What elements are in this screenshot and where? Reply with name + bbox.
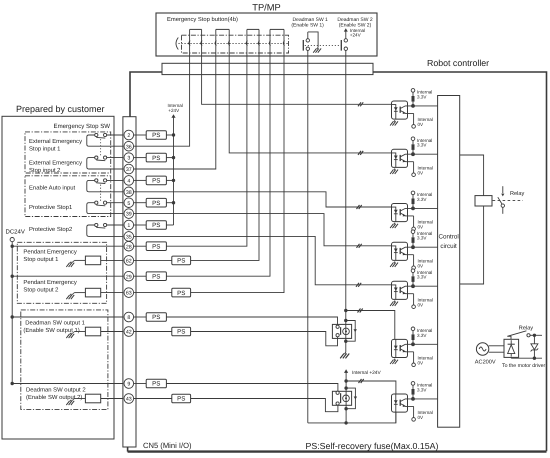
label Robot controller xyxy=(427,58,489,68)
svg-text:circuit: circuit xyxy=(440,243,457,250)
svg-text:Robot controller: Robot controller xyxy=(427,58,489,68)
wire pin 42 to PS xyxy=(134,331,172,333)
ground optocoupler 3 xyxy=(390,223,398,228)
wire K1 to ground xyxy=(345,341,347,352)
svg-text:External Emergency: External Emergency xyxy=(29,160,82,167)
ground optocoupler 6 xyxy=(390,359,398,364)
pin 8 xyxy=(124,312,134,322)
wire DC24V rail to pin 8 xyxy=(12,316,127,318)
wire DC24V rail to pin 9 xyxy=(12,383,127,385)
ground optocoupler 1 xyxy=(390,120,398,125)
svg-text:0V: 0V xyxy=(418,360,425,365)
internal 0V terminal opto 6 xyxy=(412,352,433,367)
wire pin 3 to PS xyxy=(134,157,147,159)
svg-text:PS:Self-recovery fuse(Max.0.15: PS:Self-recovery fuse(Max.0.15A) xyxy=(306,441,439,451)
svg-text:Deadman SW output 2: Deadman SW output 2 xyxy=(26,387,86,394)
PS fuse row 3 xyxy=(146,153,166,162)
TP/MP enclosure box xyxy=(156,13,377,56)
junction K1 contact upper xyxy=(344,319,347,322)
svg-text:(Enable SW output 2): (Enable SW output 2) xyxy=(26,394,82,401)
wire opto 5 output to control circuit xyxy=(413,285,438,287)
optocoupler 1 xyxy=(392,101,414,119)
CN5 connector body xyxy=(123,117,136,447)
dash-dot box: emergency stop SW group xyxy=(25,132,111,173)
emergency stop button dash-dot enclosure xyxy=(182,35,289,53)
svg-text:PS: PS xyxy=(177,258,185,265)
internal 0V terminal opto 2 xyxy=(412,162,433,177)
rectifier box xyxy=(504,339,519,357)
wire PS to +24V rail (row 4) xyxy=(166,179,173,181)
wire K2 to bottom net xyxy=(345,409,347,423)
svg-text:63: 63 xyxy=(126,291,132,297)
wire pin 37 to TP ES contact 2 xyxy=(134,56,216,169)
switch: external emergency stop input 2 xyxy=(87,156,127,169)
svg-text:(Enable SW 1): (Enable SW 1) xyxy=(291,23,324,29)
junction K2 contact lower xyxy=(344,407,347,410)
TP connector strip xyxy=(162,63,373,74)
svg-text:CN5 (Mini I/O): CN5 (Mini I/O) xyxy=(143,441,192,450)
svg-text:0V: 0V xyxy=(418,225,425,230)
internal +24V rail xyxy=(173,117,175,225)
internal 0V terminal opto 5 xyxy=(412,294,433,309)
ES button ganged link dotted line xyxy=(179,43,289,45)
svg-text:Internal +24V: Internal +24V xyxy=(352,370,381,376)
PS fuse row 63 xyxy=(172,288,191,297)
svg-text:PS: PS xyxy=(152,243,160,250)
emergency stop contact 1 xyxy=(189,29,202,56)
svg-text:0V: 0V xyxy=(418,263,425,268)
wire pin 43 to PS xyxy=(134,398,172,400)
junction K1 top xyxy=(344,309,347,312)
pin 3 xyxy=(124,153,134,163)
wire pin 9 to PS xyxy=(134,383,147,385)
DC24V terminal xyxy=(10,238,14,242)
wire deadman SW1 to bottom net xyxy=(307,56,309,423)
svg-text:Deadman SW output 1: Deadman SW output 1 xyxy=(25,320,85,327)
svg-text:5: 5 xyxy=(127,201,130,207)
load: deadman SW output 1 xyxy=(75,327,128,336)
junction K1 contact lower xyxy=(344,340,347,343)
wire PS to +24V rail (row 3) xyxy=(166,157,173,159)
label Deadman SW 1 (Enable SW 1) xyxy=(291,17,328,29)
svg-text:4: 4 xyxy=(127,179,130,185)
label Deadman SW output 2 xyxy=(26,387,86,402)
label Pendant Emergency Stop output 2 xyxy=(23,279,76,294)
internal +24V source (deadman output 2) xyxy=(344,369,381,381)
wire AC bottom to motor driver xyxy=(511,356,542,359)
wire pin 4 to PS xyxy=(134,179,147,181)
svg-text:To the motor driver: To the motor driver xyxy=(502,363,546,369)
load: pendant emergency stop output 1 xyxy=(75,256,128,265)
optocoupler 6 xyxy=(392,339,414,357)
wire pin 8 to PS xyxy=(134,316,147,318)
wire +24V to K2 contact xyxy=(345,381,347,388)
label CN5 (Mini I/O) xyxy=(143,441,192,450)
PS fuse row 1 xyxy=(146,221,166,230)
svg-text:Pendant Emergency: Pendant Emergency xyxy=(23,249,76,256)
ground optocoupler 2 xyxy=(390,169,398,174)
wire opto 3 output to control circuit xyxy=(413,207,438,209)
pin 35 xyxy=(124,232,134,242)
junction DC24V to pin 8 row xyxy=(11,315,14,318)
relay K2 (deadman SW output 2) xyxy=(332,391,351,405)
wire TP ES contact2 to optocoupler 2 input xyxy=(229,56,391,153)
pull-up resistor opto 7 xyxy=(412,385,415,399)
DC24V feed rail xyxy=(11,242,13,384)
dash-dot box: pendant emergency stop outputs group xyxy=(17,242,106,303)
junction DC24V to pin 28 row xyxy=(11,245,14,248)
svg-text:3.3V: 3.3V xyxy=(417,197,427,202)
svg-text:0V: 0V xyxy=(418,302,425,307)
label Pendant Emergency Stop output 1 xyxy=(23,249,76,264)
svg-text:+24V: +24V xyxy=(168,108,180,113)
svg-text:1: 1 xyxy=(127,223,130,229)
emergency stop contact 2 xyxy=(215,29,230,56)
deadman SW link dotted line xyxy=(305,44,341,46)
svg-text:DC24V: DC24V xyxy=(6,229,25,236)
svg-text:Stop input 2: Stop input 2 xyxy=(29,167,60,174)
PS fuse row 9 xyxy=(146,379,166,388)
wire relay coil return xyxy=(460,206,484,284)
svg-text:Enable Auto input: Enable Auto input xyxy=(29,185,76,192)
AC200V source xyxy=(476,343,488,355)
svg-text:Stop output 2: Stop output 2 xyxy=(23,287,58,294)
emergency stop contact 3 xyxy=(246,29,260,56)
ground K1 xyxy=(340,352,349,358)
optocoupler 3 xyxy=(392,204,414,222)
label Relay (AC contact) xyxy=(519,325,534,332)
svg-text:3.3V: 3.3V xyxy=(417,236,427,241)
pin 38 xyxy=(124,187,134,197)
internal 3.3V terminal opto 2 xyxy=(411,137,432,148)
svg-text:PS: PS xyxy=(152,178,160,185)
dash-dot box: enable auto / protective stop1 group xyxy=(25,176,111,217)
dash-dot box: deadman SW outputs group xyxy=(21,310,108,410)
internal 3.3V terminal opto 7 xyxy=(411,382,432,393)
wire control circuit to relay coil xyxy=(460,155,484,196)
pull-up resistor opto 6 xyxy=(412,331,415,345)
label Control circuit xyxy=(438,234,458,251)
pin 42 xyxy=(124,327,134,337)
junction +24V rail row 2 xyxy=(172,133,175,136)
label Emergency Stop SW xyxy=(54,123,111,130)
wire pin 36 to TP ES contact 1 xyxy=(134,56,190,146)
PS fuse row 5 xyxy=(146,198,166,207)
wire opto 4 output to control circuit xyxy=(413,246,438,248)
ganged link enable-auto/protective dotted xyxy=(100,185,102,202)
PS fuse row 8 xyxy=(146,313,166,322)
optocoupler 7 xyxy=(392,394,414,412)
pull-up resistor opto 4 xyxy=(412,234,415,248)
wire PS row63 to TP ES contact 4 xyxy=(191,56,284,293)
wire PS to +24V rail (row 2) xyxy=(166,134,173,136)
K2 contact bypass bracket xyxy=(346,388,357,409)
internal 3.3V terminal opto 3 xyxy=(411,191,432,202)
svg-text:PS: PS xyxy=(152,381,160,388)
diode in rectifier xyxy=(508,340,515,356)
deadman switch SW1 xyxy=(303,32,318,56)
svg-text:35: 35 xyxy=(126,235,132,241)
wire deadman SW2 to relay K1 contact xyxy=(345,56,347,321)
K1 contact bypass bracket xyxy=(346,321,357,342)
junction opto 2 output xyxy=(411,152,415,156)
optocoupler 5 xyxy=(392,281,414,299)
TP internal +24V source arrow xyxy=(344,28,365,39)
label TP/MP xyxy=(252,3,280,13)
wire opto 6 output to control circuit xyxy=(413,343,438,345)
svg-text:Relay: Relay xyxy=(510,190,525,197)
svg-text:3: 3 xyxy=(127,156,130,162)
pull-up resistor opto 2 xyxy=(412,141,415,155)
svg-text:3.3V: 3.3V xyxy=(417,275,427,280)
wire PS row9 to relay K2 coil xyxy=(166,384,338,392)
svg-text:9: 9 xyxy=(127,382,130,388)
svg-text:Stop input 1: Stop input 1 xyxy=(29,146,60,153)
wire PS to +24V rail (row 5) xyxy=(166,202,173,204)
wire pin 29 to PS xyxy=(134,275,147,277)
ground of deadman SW output 2 xyxy=(66,399,74,406)
label Protective Stop1 xyxy=(29,204,72,211)
svg-text:PS: PS xyxy=(177,290,185,297)
pin 29 xyxy=(124,271,134,281)
wire pin 39 to optocoupler 4 input xyxy=(134,214,392,246)
svg-text:+24V: +24V xyxy=(350,33,362,38)
ground of deadman SW output 1 xyxy=(66,332,74,339)
wire pin 62 to PS xyxy=(134,259,172,261)
wire pin 2 to PS xyxy=(134,134,147,136)
svg-text:42: 42 xyxy=(126,330,132,336)
pull-up resistor opto 5 xyxy=(412,273,415,287)
svg-text:AC200V: AC200V xyxy=(475,360,496,366)
svg-text:8: 8 xyxy=(127,315,130,321)
junction DC24V to pin 29 row xyxy=(11,275,14,278)
ground of pendant emergency stop output 2 xyxy=(66,293,74,300)
svg-text:29: 29 xyxy=(126,274,132,280)
junction opto 4 output xyxy=(411,245,415,249)
label AC200V xyxy=(475,360,496,366)
PS fuse row 2 xyxy=(146,131,166,140)
wire PS row62 to TP ES contact 3 xyxy=(191,56,259,260)
svg-text:0V: 0V xyxy=(418,170,425,175)
wire pin 28 to PS xyxy=(134,245,147,247)
pin 43 xyxy=(124,394,134,404)
label External Emergency Stop input 1 xyxy=(29,138,82,153)
pin 39 xyxy=(124,209,134,219)
label External Emergency Stop input 2 xyxy=(29,160,82,175)
wire PS row29 to TP ES contact 4 xyxy=(166,56,270,276)
load: deadman SW output 2 xyxy=(75,394,128,403)
internal 0V terminal opto 7 xyxy=(412,406,433,421)
wire TP ES contact1 to optocoupler 1 input xyxy=(202,56,392,104)
junction DC24V to pin 9 row xyxy=(11,382,14,385)
PS fuse row 29 xyxy=(146,272,166,281)
wire through K2 contact xyxy=(345,388,347,409)
label Prepared by customer xyxy=(16,104,105,114)
internal +24V source (controller) xyxy=(168,103,183,118)
junction opto 3 output xyxy=(411,207,415,211)
svg-text:Emergency Stop button(4b): Emergency Stop button(4b) xyxy=(167,16,238,23)
junction bottom net xyxy=(344,421,347,424)
wire bottom net (SW1 return to opto7) xyxy=(308,412,396,423)
svg-text:28: 28 xyxy=(126,244,132,250)
svg-text:62: 62 xyxy=(126,259,132,265)
internal 0V terminal opto 3 xyxy=(412,216,433,231)
PS fuse row 42 xyxy=(172,327,191,336)
wire opto 2 output to control circuit xyxy=(413,153,438,155)
svg-text:PS: PS xyxy=(177,329,185,336)
robot controller enclosure xyxy=(128,72,547,452)
wire K1 to optocoupler 6 xyxy=(346,311,395,340)
ES button mechanical coupler arc xyxy=(176,38,178,50)
pin 5 xyxy=(124,198,134,208)
internal 3.3V terminal opto 5 xyxy=(411,269,432,280)
internal 0V terminal opto 1 xyxy=(412,113,433,128)
wire opto 1 output to control circuit xyxy=(413,105,438,107)
label Relay (controller) xyxy=(510,190,525,197)
wire pin 38 to optocoupler 3 input xyxy=(134,192,392,207)
svg-text:37: 37 xyxy=(126,167,132,173)
svg-text:External Emergency: External Emergency xyxy=(29,138,82,145)
svg-text:36: 36 xyxy=(126,144,132,150)
wire pin 35 to optocoupler 5 input xyxy=(134,236,392,284)
internal 3.3V terminal opto 4 xyxy=(411,230,432,241)
label Deadman SW 2 (Enable SW 2) xyxy=(337,17,373,29)
wire pin 5 to PS xyxy=(134,202,147,204)
wire PS row42 to relay K1 coil return xyxy=(191,332,338,346)
PS fuse row 62 xyxy=(172,256,191,265)
label Protective Stop2 xyxy=(29,226,72,233)
svg-text:TP/MP: TP/MP xyxy=(252,3,280,13)
svg-text:3.3V: 3.3V xyxy=(417,333,427,338)
pull-up resistor opto 3 xyxy=(412,195,415,209)
optocoupler 2 xyxy=(392,149,414,167)
relay actuation dashed link xyxy=(493,200,523,202)
control circuit box xyxy=(438,96,460,428)
wire pin 1 to PS xyxy=(134,224,147,226)
wire pin 63 to PS xyxy=(134,292,172,294)
PS fuse row 4 xyxy=(146,176,166,185)
pull-up resistor opto 1 xyxy=(412,92,415,106)
pin 36 xyxy=(124,141,134,151)
relay contact (AC side) xyxy=(507,331,542,340)
junction opto 6 output xyxy=(411,342,415,346)
relay coil xyxy=(475,196,492,206)
junction AC bottom xyxy=(533,357,536,360)
zener diode xyxy=(531,335,539,358)
label DC24V xyxy=(6,229,25,236)
junction opto 7 output xyxy=(411,397,415,401)
svg-text:3.3V: 3.3V xyxy=(417,143,427,148)
label To the motor driver xyxy=(502,363,546,369)
deadman switch SW2 xyxy=(341,39,347,56)
svg-text:Protective Stop2: Protective Stop2 xyxy=(29,226,72,233)
pin 37 xyxy=(124,164,134,174)
pin 63 xyxy=(124,288,134,298)
wire PS row43 to relay K2 coil return xyxy=(191,399,338,412)
wire K2 to optocoupler 7 xyxy=(346,381,396,394)
svg-text:3.3V: 3.3V xyxy=(417,94,427,99)
label PS:Self-recovery fuse xyxy=(306,441,439,451)
svg-text:0V: 0V xyxy=(418,415,425,420)
svg-text:PS: PS xyxy=(152,314,160,321)
switch: external emergency stop input 1 xyxy=(87,133,127,146)
svg-text:PS: PS xyxy=(177,396,185,403)
ground of pendant emergency stop output 1 xyxy=(66,260,74,267)
svg-text:3.3V: 3.3V xyxy=(417,387,427,392)
wires AC source to rectifier xyxy=(489,346,504,352)
label Emergency Stop button(4b) xyxy=(167,16,238,23)
wire PS row28 to TP ES contact 3 xyxy=(166,56,247,246)
svg-text:Control: Control xyxy=(438,234,458,241)
wire through K1 contact xyxy=(345,321,347,342)
svg-text:PS: PS xyxy=(152,132,160,139)
svg-text:43: 43 xyxy=(126,397,132,403)
PS fuse row 43 xyxy=(172,394,191,403)
svg-text:Stop output 1: Stop output 1 xyxy=(23,256,58,263)
svg-text:Prepared by customer: Prepared by customer xyxy=(16,104,105,114)
label Deadman SW output 1 xyxy=(23,320,85,335)
wire DC24V rail to pin 29 xyxy=(12,275,127,277)
optocoupler 4 xyxy=(392,242,414,260)
deadman SW1 ground xyxy=(313,47,321,52)
relay K1 (deadman SW output 1) xyxy=(332,324,351,338)
switch: protective stop 2 xyxy=(87,223,127,236)
junction AC top xyxy=(533,334,536,337)
ganged link ES SW poles dotted xyxy=(100,139,102,156)
svg-text:Protective Stop1: Protective Stop1 xyxy=(29,204,72,211)
wire opto 7 output to control circuit xyxy=(413,398,438,400)
wire PS to +24V rail (row 1) xyxy=(166,224,173,226)
svg-text:Pendant Emergency: Pendant Emergency xyxy=(23,279,76,286)
internal 3.3V terminal opto 1 xyxy=(411,89,432,100)
junction K2 top xyxy=(344,379,347,382)
wire PS row8 to relay K1 coil xyxy=(166,317,337,325)
svg-text:Emergency Stop SW: Emergency Stop SW xyxy=(54,123,111,130)
pin 62 xyxy=(124,256,134,266)
svg-text:PS: PS xyxy=(152,222,160,229)
svg-text:PS: PS xyxy=(152,155,160,162)
internal 0V terminal opto 4 xyxy=(412,255,433,270)
svg-text:PS: PS xyxy=(152,273,160,280)
junction opto 1 output xyxy=(411,104,415,108)
junction opto 5 output xyxy=(411,284,415,288)
switch: enable auto input xyxy=(87,179,127,192)
junction +24V rail row 5 xyxy=(172,201,175,204)
relay contact (controller) xyxy=(498,186,505,214)
svg-text:2: 2 xyxy=(127,133,130,139)
switch: protective stop 1 xyxy=(87,201,127,214)
internal 3.3V terminal opto 6 xyxy=(411,327,432,338)
pin 28 xyxy=(124,241,134,251)
svg-text:0V: 0V xyxy=(418,122,425,127)
pin 4 xyxy=(124,176,134,186)
PS fuse row 28 xyxy=(146,242,166,251)
junction K2 contact upper xyxy=(344,386,347,389)
ground optocoupler 4 xyxy=(390,262,398,267)
ground optocoupler 5 xyxy=(390,301,398,306)
svg-text:38: 38 xyxy=(126,190,132,196)
pin 2 xyxy=(124,130,134,140)
svg-text:PS: PS xyxy=(152,200,160,207)
prepared-by-customer enclosure xyxy=(2,116,114,439)
pin 9 xyxy=(124,379,134,389)
wire opto 7 cathode xyxy=(395,412,397,423)
svg-text:39: 39 xyxy=(126,212,132,218)
emergency stop contact 4 xyxy=(269,29,284,56)
wire DC24V rail to pin 28 xyxy=(12,245,127,247)
label Enable Auto input xyxy=(29,185,76,192)
junction +24V rail row 4 xyxy=(172,179,175,182)
